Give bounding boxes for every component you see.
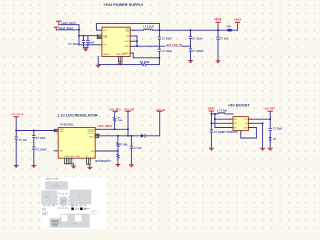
wire boost input vertical bbox=[210, 114, 212, 148]
svg-text:C? 1uF: C? 1uF bbox=[220, 38, 229, 41]
junction bbox=[136, 40, 138, 42]
junction bbox=[117, 135, 119, 137]
svg-text:GALAXY CORE: GALAXY CORE bbox=[45, 177, 59, 180]
ferrite bead FB1 bbox=[226, 29, 232, 32]
wire output rail bbox=[99, 135, 160, 137]
pin EN U2 bbox=[54, 150, 58, 152]
junction bbox=[136, 45, 138, 47]
svg-text:+3V3_LDO_IN: +3V3_LDO_IN bbox=[165, 44, 182, 47]
capacitor Cout LDO bbox=[130, 136, 133, 164]
wire PG pin bbox=[79, 44, 98, 46]
svg-text:GND: GND bbox=[244, 127, 249, 129]
power flag VBAT (lower) bbox=[54, 27, 59, 30]
ground Cout LDO bbox=[129, 164, 134, 167]
svg-text:C? 10uF: C? 10uF bbox=[273, 128, 283, 131]
junction bbox=[127, 129, 129, 131]
svg-text:10uF: 10uF bbox=[89, 42, 95, 45]
wire SNS net bbox=[135, 45, 191, 47]
ground Cout1 bbox=[188, 60, 193, 63]
pin cluster VIN U2 bbox=[54, 129, 58, 131]
wire boost input horizontal with inductor bbox=[211, 113, 233, 114]
junction bbox=[114, 129, 116, 131]
wire LDO input horizontal bbox=[16, 130, 54, 132]
svg-text:NCP163AFCT: NCP163AFCT bbox=[95, 160, 111, 163]
thumbnail block bottom big bbox=[61, 214, 89, 227]
junction bbox=[214, 113, 216, 115]
svg-text:AGND: AGND bbox=[103, 53, 110, 56]
svg-text:VBAT_PROT: VBAT_PROT bbox=[62, 22, 77, 25]
pins GND bottom cluster1 bbox=[65, 158, 74, 165]
power flag VBAT (upper) bbox=[56, 21, 61, 25]
svg-text:U? NCP163: U? NCP163 bbox=[60, 123, 74, 126]
svg-text:VIN: VIN bbox=[103, 37, 107, 39]
pin PGND right bbox=[130, 52, 133, 54]
thumbnail middle parts row bbox=[43, 204, 46, 207]
U3 inner pin names bbox=[234, 119, 238, 129]
junction bbox=[78, 29, 80, 31]
diode D boost bbox=[269, 137, 272, 140]
junction bbox=[262, 123, 264, 125]
svg-text:FB?: FB? bbox=[227, 27, 232, 29]
junction bbox=[15, 130, 17, 132]
capacitor on mid vertical upper bbox=[158, 37, 161, 40]
power flag +3V3_RF bbox=[235, 22, 240, 25]
ground U1 left bbox=[96, 65, 101, 68]
wire LDO input vertical bbox=[15, 119, 17, 165]
ground Cin2 bbox=[31, 165, 36, 168]
wire FB/VOS link bbox=[135, 36, 138, 46]
svg-text:GPS: GPS bbox=[92, 212, 95, 214]
svg-text:C? 100nF: C? 100nF bbox=[69, 43, 81, 46]
thumbnail mcu pin ticks bbox=[59, 196, 67, 207]
junction bbox=[190, 29, 192, 31]
svg-text:VOS: VOS bbox=[124, 41, 129, 43]
junction bbox=[214, 118, 216, 120]
capacitor C7 bbox=[86, 36, 89, 48]
wire flag3 stem bbox=[159, 112, 161, 136]
wire bootstrap loop top bbox=[96, 23, 159, 29]
wire +1V1_MCU bbox=[99, 128, 128, 130]
op-amp U1 body bbox=[102, 27, 130, 56]
svg-text:100k: 100k bbox=[118, 120, 124, 122]
net label +1V1_MCU red bbox=[97, 124, 112, 128]
pin SW right bbox=[130, 29, 134, 31]
junction bbox=[159, 57, 161, 59]
wire pin1 left bbox=[215, 118, 230, 120]
wire flag2 stem bbox=[127, 112, 129, 136]
svg-text:C? 100nF: C? 100nF bbox=[192, 50, 204, 53]
svg-text:+1V1_MCU: +1V1_MCU bbox=[97, 124, 112, 128]
capacitor Cin boost bbox=[210, 130, 213, 133]
svg-text:EN: EN bbox=[103, 30, 106, 32]
U1 inner pin names left bbox=[103, 30, 110, 56]
wire PGND route bbox=[133, 53, 159, 58]
pin PG bbox=[98, 44, 102, 46]
U1 inner pin names right bbox=[123, 29, 130, 55]
junction bbox=[83, 35, 85, 37]
pins GND bottom cluster2 bbox=[87, 158, 91, 166]
ground Cin1 bbox=[14, 165, 19, 168]
svg-text:+3V3 POWER SUPPLY: +3V3 POWER SUPPLY bbox=[103, 3, 144, 7]
power flag out2 bbox=[125, 111, 130, 112]
pin U3 bottom bbox=[240, 131, 242, 133]
thumbnail white slot 2 bbox=[75, 215, 82, 222]
pins U3 left bbox=[230, 119, 233, 127]
junction bbox=[78, 35, 80, 37]
pin FB right bbox=[130, 35, 134, 37]
power flag LDO input bbox=[14, 116, 19, 119]
thumbnail block left bbox=[42, 191, 57, 204]
capacitor Cout1 bbox=[189, 30, 192, 60]
wire FB bottom loop bbox=[241, 128, 257, 139]
wire feed vertical bbox=[214, 114, 216, 128]
pins PAD bottom bbox=[118, 57, 122, 63]
resistor Rfb2 bbox=[117, 151, 119, 164]
svg-text:L? 2.2uH: L? 2.2uH bbox=[143, 25, 154, 28]
resistor R feedback bbox=[141, 63, 146, 66]
svg-text:+5V_EXT: +5V_EXT bbox=[264, 108, 275, 111]
junction bbox=[33, 130, 35, 132]
ground U2 cluster2 bbox=[87, 167, 92, 170]
ground Cout boost bbox=[268, 148, 273, 151]
wire VBAT lower horizontal bbox=[56, 29, 79, 31]
power flag R pullup bbox=[113, 111, 118, 113]
pin cluster VIN bbox=[97, 35, 102, 39]
junction bbox=[127, 135, 129, 137]
svg-text:GNSS: GNSS bbox=[72, 223, 78, 225]
U3 inner pin names right bbox=[244, 119, 249, 129]
U2 inner pin names left bbox=[60, 129, 64, 152]
wire output vertical bbox=[269, 112, 271, 148]
svg-text:VOUT: VOUT bbox=[88, 133, 95, 135]
wire caps to ground bbox=[84, 47, 88, 48]
junction bbox=[211, 113, 213, 115]
inductor L1 bbox=[135, 29, 238, 30]
svg-text:1.1V LDO REGULATOR: 1.1V LDO REGULATOR bbox=[57, 114, 98, 118]
svg-text:POWER: POWER bbox=[53, 185, 60, 187]
junction bbox=[159, 29, 161, 31]
svg-text:VIN: VIN bbox=[60, 131, 64, 133]
svg-text:+3V3_LDO_IN: +3V3_LDO_IN bbox=[11, 114, 24, 116]
svg-text:+5V BOOST: +5V BOOST bbox=[228, 102, 251, 107]
svg-text:U? TPS61070: U? TPS61070 bbox=[222, 131, 238, 134]
thumbnail block top bbox=[46, 182, 68, 190]
svg-text:R? 100k: R? 100k bbox=[140, 61, 150, 64]
resistor R pullup bbox=[113, 113, 115, 129]
U2 inner pin names right bbox=[88, 129, 95, 153]
svg-text:SNS: SNS bbox=[89, 137, 94, 139]
svg-text:VBAT_PROT: VBAT_PROT bbox=[59, 28, 74, 31]
resistor Rfb1 bbox=[117, 136, 119, 151]
net label +3V3_LDO_IN red bbox=[165, 44, 182, 48]
capacitor Cin1 LDO bbox=[15, 137, 18, 140]
wire pin2 left bbox=[211, 122, 229, 124]
thumbnail sheet background bbox=[41, 177, 108, 229]
svg-text:MCU: MCU bbox=[61, 201, 66, 203]
wire mid vertical to ground bbox=[262, 123, 264, 147]
svg-text:C? 22uF: C? 22uF bbox=[162, 50, 172, 53]
wire flagB stem bbox=[237, 25, 239, 31]
wire VBAT upper horizontal bbox=[59, 24, 79, 26]
power flag +5V bbox=[268, 111, 273, 112]
ground Cin boost bbox=[209, 148, 214, 151]
thumbnail dashed ellipse bbox=[90, 210, 99, 214]
thumbnail parts between black bbox=[75, 208, 79, 210]
ground mid boost bbox=[260, 148, 265, 151]
thumbnail black component 2 bbox=[80, 208, 83, 211]
ground input caps bbox=[83, 49, 88, 52]
power flag +3V3 bbox=[215, 22, 220, 25]
pin EN bbox=[96, 29, 102, 31]
capacitor C6 bbox=[82, 36, 85, 48]
svg-text:SNS: SNS bbox=[124, 46, 129, 48]
thumbnail left small blocks bbox=[42, 208, 46, 211]
capacitor on mid vertical lower bbox=[158, 49, 161, 52]
svg-text:+3V3: +3V3 bbox=[234, 17, 241, 21]
pin FB right bbox=[95, 150, 99, 152]
svg-text:C? 100nF: C? 100nF bbox=[36, 148, 47, 151]
svg-text:C? 22uF: C? 22uF bbox=[162, 38, 172, 41]
capacitor Cout2 bbox=[216, 25, 219, 60]
thumbnail margin ticks bbox=[41, 183, 107, 223]
thumbnail mcu core bbox=[60, 197, 67, 205]
pin VOS right bbox=[130, 40, 134, 42]
ground U1 pad bbox=[118, 63, 123, 66]
svg-text:GND GND GND: GND GND GND bbox=[64, 156, 80, 158]
svg-text:R? 56k: R? 56k bbox=[120, 144, 129, 147]
svg-text:PG: PG bbox=[103, 45, 106, 47]
wire feedback bottom bbox=[98, 57, 159, 65]
junction bbox=[117, 150, 119, 152]
power flag boost input bbox=[209, 111, 214, 114]
junction bbox=[217, 29, 219, 31]
junction bbox=[131, 135, 133, 137]
junction bbox=[269, 118, 271, 120]
pin VOUT top right bbox=[95, 128, 99, 130]
capacitor Cin2 LDO bbox=[32, 131, 35, 165]
svg-text:C? 22uF: C? 22uF bbox=[192, 37, 202, 40]
wire output top bbox=[252, 118, 271, 120]
ground Rfb2 bbox=[116, 164, 121, 167]
svg-text:GND GND: GND GND bbox=[116, 54, 127, 56]
wire FB sense bbox=[99, 150, 118, 152]
svg-text:VBAT: VBAT bbox=[208, 107, 215, 111]
power flag out3 bbox=[157, 111, 162, 112]
thumbnail black component 1 bbox=[71, 208, 74, 211]
svg-text:SW: SW bbox=[234, 119, 237, 121]
thumbnail white slot 1 bbox=[61, 215, 67, 222]
op-amp U3 body bbox=[233, 117, 248, 131]
svg-text:L? 4.7uH: L? 4.7uH bbox=[217, 109, 227, 112]
pins U3 right bbox=[248, 119, 251, 127]
svg-text:C? 1uF: C? 1uF bbox=[19, 139, 28, 142]
ground U2 cluster1 bbox=[71, 166, 76, 169]
thumbnail block radio bbox=[70, 190, 91, 204]
diode on rail bbox=[141, 134, 146, 138]
pin cluster VOUT right bbox=[95, 134, 99, 137]
wire FB mid bbox=[252, 122, 263, 124]
svg-text:+3V3: +3V3 bbox=[214, 17, 222, 21]
thumbnail block bottom-left notes bbox=[50, 218, 61, 227]
thumbnail mcu cluster pads bbox=[56, 193, 70, 209]
wire mid vertical bbox=[158, 23, 160, 64]
ground Cout2 bbox=[216, 60, 221, 63]
svg-text:C? 10uF: C? 10uF bbox=[36, 137, 46, 140]
wire pin3 left bbox=[215, 127, 230, 129]
op-amp U2 body bbox=[58, 128, 95, 159]
svg-text:EN: EN bbox=[60, 151, 63, 153]
wire VIN rail bbox=[79, 35, 98, 37]
svg-text:C? 1uF: C? 1uF bbox=[133, 147, 142, 150]
wire input vertical bbox=[78, 25, 80, 45]
capacitor Cout boost bbox=[269, 128, 272, 131]
junction bbox=[211, 123, 213, 125]
pin SNS right bbox=[130, 45, 134, 47]
